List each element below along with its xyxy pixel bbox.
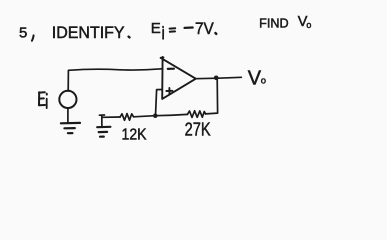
svg-text:V: V xyxy=(248,68,262,90)
svg-text:o: o xyxy=(261,75,266,86)
svg-text:FIND: FIND xyxy=(259,16,289,30)
svg-text:12K: 12K xyxy=(122,127,147,144)
svg-text:7V: 7V xyxy=(195,19,214,38)
svg-text:o: o xyxy=(306,20,311,30)
svg-text:27K: 27K xyxy=(185,120,211,140)
svg-text:5: 5 xyxy=(19,24,27,41)
svg-text:IDENTIFY: IDENTIFY xyxy=(52,24,125,42)
svg-text:E: E xyxy=(151,20,161,37)
